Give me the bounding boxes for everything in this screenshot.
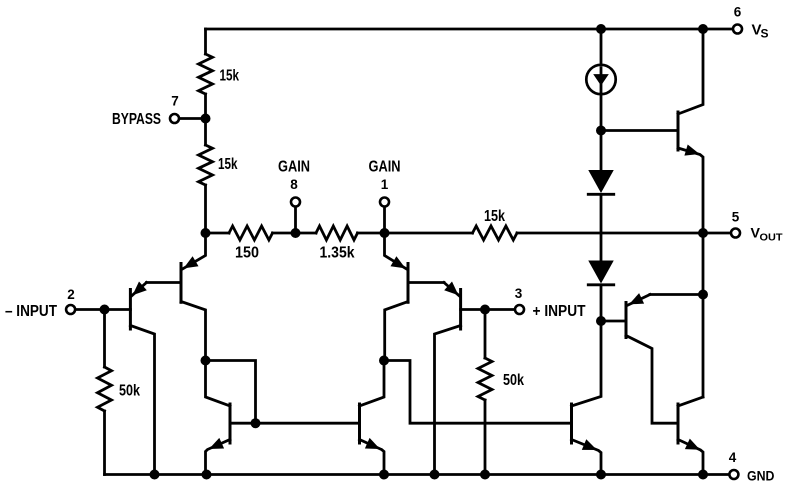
svg-text:8: 8	[290, 177, 298, 192]
svg-text:15k: 15k	[484, 208, 505, 225]
svg-text:15k: 15k	[220, 68, 240, 85]
svg-text:3: 3	[515, 286, 523, 301]
svg-text:S: S	[761, 27, 769, 41]
svg-text:5: 5	[732, 209, 740, 224]
svg-text:2: 2	[67, 287, 75, 302]
svg-text:15k: 15k	[218, 156, 238, 173]
svg-text:OUT: OUT	[760, 233, 783, 244]
svg-text:7: 7	[171, 94, 179, 109]
svg-text:4: 4	[729, 450, 737, 465]
svg-text:1.35k: 1.35k	[320, 245, 355, 262]
svg-text:– INPUT: – INPUT	[5, 303, 57, 320]
svg-text:50k: 50k	[119, 383, 140, 400]
svg-text:50k: 50k	[503, 372, 524, 389]
svg-text:1: 1	[381, 177, 389, 192]
svg-text:BYPASS: BYPASS	[112, 111, 161, 128]
svg-text:GAIN: GAIN	[369, 159, 401, 176]
svg-text:6: 6	[734, 5, 742, 20]
svg-text:GAIN: GAIN	[278, 159, 310, 176]
svg-text:+ INPUT: + INPUT	[533, 303, 586, 320]
svg-text:GND: GND	[747, 467, 775, 483]
svg-text:150: 150	[235, 245, 259, 262]
